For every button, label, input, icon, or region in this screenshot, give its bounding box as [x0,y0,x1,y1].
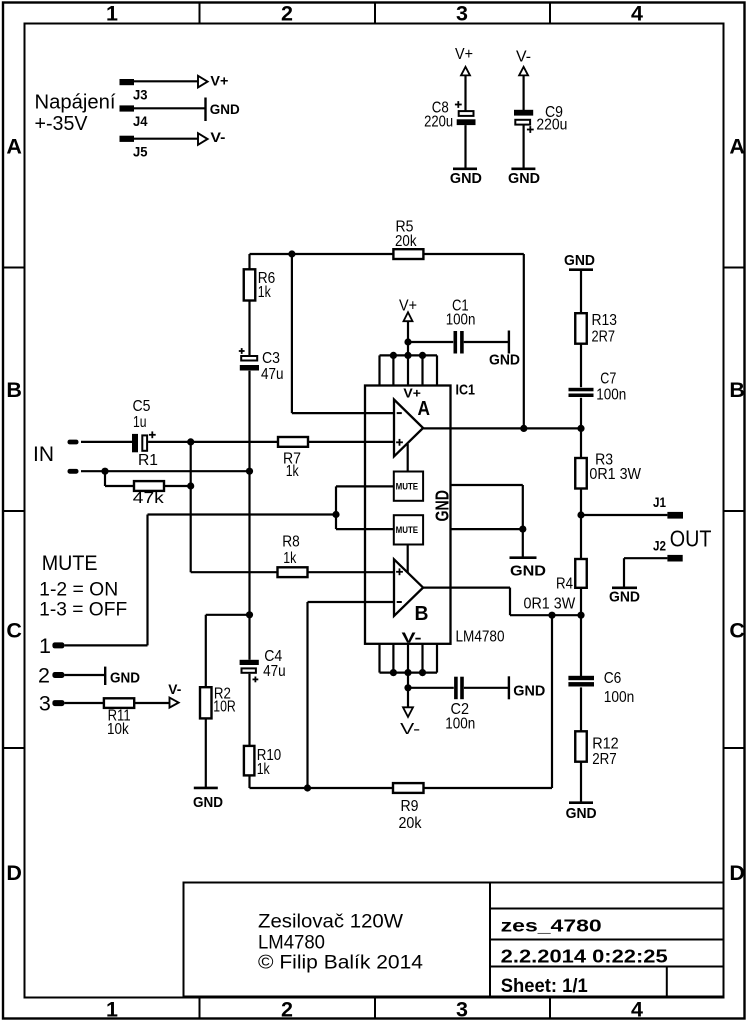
svg-text:C: C [6,618,22,642]
svg-text:GND: GND [110,671,140,687]
svg-text:C7: C7 [600,370,616,387]
svg-text:C6: C6 [604,670,622,687]
svg-text:GND: GND [489,352,520,369]
svg-text:J5: J5 [133,144,148,160]
svg-text:2: 2 [281,1,293,25]
svg-text:V+: V+ [403,385,421,400]
svg-text:V-: V- [400,721,420,738]
svg-text:100n: 100n [596,386,626,403]
svg-text:R8: R8 [282,533,300,550]
svg-text:220u: 220u [536,117,567,134]
svg-text:2R7: 2R7 [592,751,617,768]
svg-text:10k: 10k [107,721,130,738]
svg-text:GND: GND [510,563,546,580]
svg-text:C5: C5 [133,398,151,415]
svg-text:LM4780: LM4780 [258,932,325,953]
svg-text:4: 4 [631,998,643,1022]
svg-text:220u: 220u [424,114,453,131]
svg-text:1k: 1k [258,284,272,301]
svg-text:4: 4 [631,1,643,25]
svg-text:IC1: IC1 [456,382,476,399]
svg-text:20k: 20k [399,815,423,832]
svg-text:GND: GND [433,490,453,522]
svg-text:MUTE: MUTE [42,551,98,575]
svg-text:D: D [6,861,22,885]
svg-text:1-2 = ON: 1-2 = ON [39,579,118,600]
svg-text:1: 1 [39,634,51,658]
svg-text:10R: 10R [213,699,236,716]
svg-text:B: B [415,603,429,625]
svg-text:GND: GND [210,101,240,117]
svg-text:V-: V- [168,682,181,697]
svg-text:© Filip Balík 2014: © Filip Balík 2014 [258,953,423,974]
svg-text:2: 2 [38,664,50,688]
svg-text:V+: V+ [210,72,228,88]
svg-text:2R7: 2R7 [592,329,616,346]
svg-text:1k: 1k [283,550,297,567]
svg-text:100n: 100n [446,312,476,329]
svg-text:100n: 100n [445,716,475,733]
svg-text:A: A [729,135,745,159]
svg-text:GND: GND [508,170,540,187]
svg-text:MUTE: MUTE [396,525,419,536]
svg-text:Sheet: 1/1: Sheet: 1/1 [501,976,588,997]
svg-text:3: 3 [456,1,468,25]
svg-text:R1: R1 [138,452,158,469]
svg-text:1: 1 [106,1,118,25]
svg-text:1k: 1k [286,463,300,480]
svg-text:GND: GND [193,794,223,811]
svg-text:A: A [418,398,431,420]
svg-text:R12: R12 [592,735,619,752]
svg-text:J2: J2 [653,539,666,554]
svg-text:2.2.2014 0:22:25: 2.2.2014 0:22:25 [501,945,668,966]
svg-text:2: 2 [281,998,293,1022]
svg-text:GND: GND [566,805,597,822]
svg-text:1-3 = OFF: 1-3 = OFF [39,599,127,620]
svg-text:V-: V- [210,129,225,145]
svg-text:MUTE: MUTE [396,481,419,492]
svg-text:GND: GND [564,252,595,269]
svg-text:R13: R13 [592,312,618,329]
svg-text:C: C [729,618,745,642]
svg-text:B: B [729,378,745,402]
svg-text:3: 3 [39,691,51,715]
svg-text:GND: GND [609,589,640,606]
svg-text:A: A [6,135,22,159]
svg-text:20k: 20k [395,233,417,250]
svg-text:V-: V- [402,631,422,647]
svg-text:100n: 100n [604,689,635,706]
svg-text:J3: J3 [133,87,148,103]
svg-text:V-: V- [516,48,531,65]
svg-text:D: D [729,861,745,885]
svg-text:GND: GND [450,170,482,187]
svg-text:47u: 47u [263,663,286,680]
svg-text:0R1 3W: 0R1 3W [589,466,641,483]
svg-text:1u: 1u [133,414,147,431]
svg-text:1k: 1k [257,761,271,778]
svg-text:R4: R4 [556,575,573,592]
svg-text:47u: 47u [261,366,284,383]
svg-text:+-35V: +-35V [35,113,89,135]
svg-text:OUT: OUT [670,526,712,552]
svg-text:J1: J1 [653,495,666,510]
svg-text:Napájení: Napájení [35,92,116,114]
svg-text:GND: GND [513,683,545,700]
svg-text:R9: R9 [401,798,419,815]
svg-text:C3: C3 [262,350,280,367]
svg-text:J4: J4 [133,113,148,129]
svg-text:IN: IN [33,443,54,466]
svg-text:V+: V+ [455,46,473,63]
svg-text:3: 3 [456,998,468,1022]
svg-text:Zesilovač 120W: Zesilovač 120W [258,911,403,932]
svg-text:V+: V+ [399,298,417,315]
svg-text:B: B [6,378,22,402]
svg-text:LM4780: LM4780 [456,629,505,646]
svg-text:1: 1 [106,998,118,1022]
svg-text:47k: 47k [133,490,165,507]
svg-text:zes_4780: zes_4780 [501,916,602,936]
svg-text:0R1 3W: 0R1 3W [524,596,577,613]
